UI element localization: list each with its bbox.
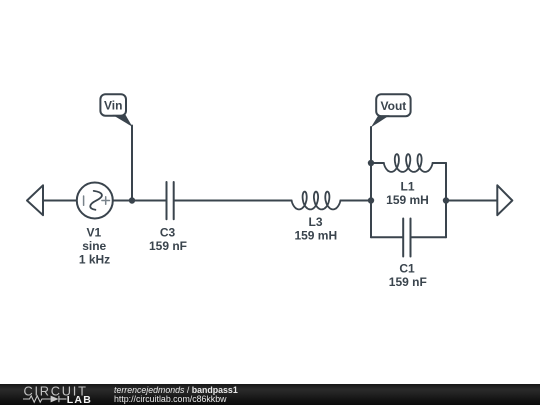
svg-text:159 nF: 159 nF — [389, 275, 427, 289]
svg-text:LAB: LAB — [67, 394, 92, 405]
voltage source V1 — [77, 183, 113, 219]
wire tank bottom right — [411, 236, 446, 238]
output port arrow — [497, 185, 512, 215]
label L3 value — [294, 215, 337, 243]
label V1 value — [79, 225, 110, 266]
capacitor C1 — [403, 219, 410, 257]
wire tank top left — [371, 162, 384, 164]
inductor L3 — [292, 192, 341, 210]
svg-text:http://circuitlab.com/c86kkbw: http://circuitlab.com/c86kkbw — [114, 394, 227, 404]
wire tank bottom left — [371, 236, 402, 238]
capacitor C3 — [167, 182, 174, 219]
svg-text:sine: sine — [82, 239, 106, 253]
svg-text:C3: C3 — [160, 225, 176, 239]
svg-text:V1: V1 — [86, 225, 101, 239]
inductor L1 — [384, 154, 433, 172]
net label Vin — [100, 94, 132, 127]
svg-text:159 mH: 159 mH — [294, 229, 337, 243]
svg-text:L1: L1 — [400, 180, 414, 194]
label C3 value — [149, 225, 187, 253]
wire port to V1 — [43, 200, 77, 202]
node junction tank left mid — [368, 197, 374, 203]
node junction tank right mid — [443, 197, 449, 203]
wire tank left vertical — [370, 163, 372, 237]
svg-text:C1: C1 — [399, 262, 415, 276]
svg-text:159 nF: 159 nF — [149, 239, 187, 253]
wire tank right vertical — [445, 163, 447, 237]
logo resistor-diode glyph — [23, 396, 67, 403]
wire Vin flag down — [131, 126, 133, 201]
svg-text:Vout: Vout — [381, 99, 407, 113]
net label Vout — [371, 94, 411, 127]
CircuitLab logo wordmark — [24, 384, 88, 399]
node junction tank top left — [368, 160, 374, 166]
wire tank to output port — [446, 200, 497, 202]
input port arrow — [27, 185, 43, 215]
wire Vout flag down — [370, 127, 372, 163]
wire C3 to L3 — [175, 200, 292, 202]
svg-text:159 mH: 159 mH — [386, 193, 429, 207]
wire V1 to node — [113, 200, 166, 202]
footer bar — [0, 384, 540, 405]
node junction Vin — [129, 197, 135, 203]
wire L3 to tank — [340, 200, 371, 202]
svg-text:L3: L3 — [308, 215, 322, 229]
label C1 value — [389, 262, 427, 290]
svg-text:1 kHz: 1 kHz — [79, 252, 110, 266]
svg-text:Vin: Vin — [104, 99, 122, 113]
label L1 value — [386, 180, 429, 208]
wire tank top right — [433, 162, 446, 164]
